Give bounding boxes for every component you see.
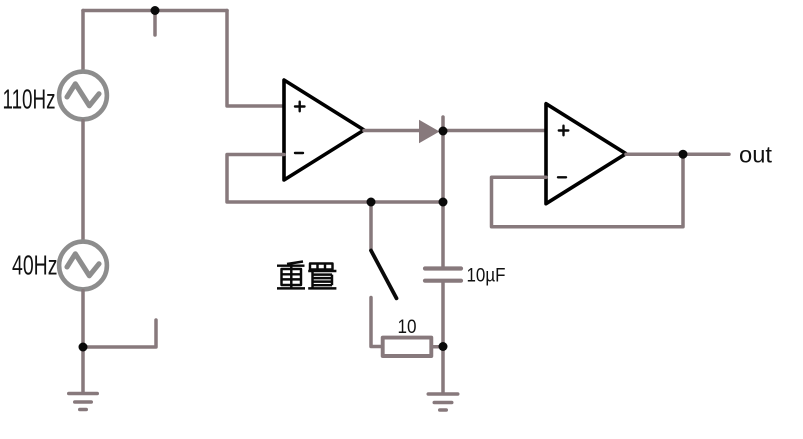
svg-text:110Hz: 110Hz: [3, 84, 56, 115]
source V1 110Hz: [59, 72, 107, 120]
wire bottom rail node down to capacitor top plate: [441, 202, 445, 266]
ground middle: [428, 394, 457, 410]
op-amp U1: [284, 80, 364, 180]
ground left: [69, 394, 97, 410]
svg-text:out: out: [739, 142, 773, 168]
wire top horizontal: [83, 9, 227, 13]
wire U2 output to out: [626, 152, 729, 156]
wire diode node to U2 plus input: [443, 129, 546, 133]
node bottom-left junction: [79, 343, 88, 352]
svg-text:10: 10: [398, 316, 417, 338]
wire between sources: [81, 121, 85, 242]
diode D1: [419, 120, 440, 143]
node U2 output junction: [679, 150, 688, 159]
source V2 40Hz: [59, 242, 107, 290]
wire diode node down to bottom rail: [441, 131, 445, 202]
wire capacitor bottom plate down to ground: [441, 283, 445, 393]
capacitor C1: [425, 269, 461, 281]
wire left column top segment: [81, 11, 85, 72]
wire U1 minus input feedback from bottom rail: [227, 155, 443, 203]
op-amp U2: [546, 104, 626, 204]
node switch tap on bottom rail: [367, 198, 376, 207]
wire probe stub at top node: [153, 11, 157, 36]
resistor R1: [383, 338, 432, 356]
wire resistor right lead: [431, 345, 443, 349]
wire U2 feedback loop: [492, 154, 684, 227]
node capacitor tap on bottom rail: [439, 198, 448, 207]
wire 40Hz bottom to ground: [81, 291, 85, 393]
node top junction: [151, 6, 160, 15]
wire L-shaped stub right of bottom-left node: [83, 320, 156, 347]
node diode output: [439, 127, 448, 136]
wire U1 output: [364, 129, 420, 133]
svg-text:40Hz: 40Hz: [12, 250, 58, 281]
svg-text:10µF: 10µF: [467, 265, 506, 287]
wire probe stub above diode node: [441, 117, 445, 131]
node resistor to capacitor column: [439, 342, 448, 351]
wire top-right vertical down to U1 plus input: [227, 11, 284, 107]
switch SW1: [371, 202, 397, 347]
label reset (Chinese): [277, 262, 336, 289]
